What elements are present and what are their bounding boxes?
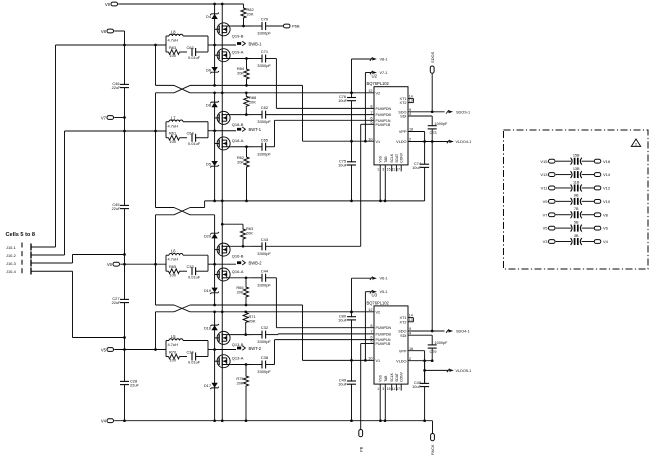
svg-text:V5: V5: [543, 226, 549, 231]
svg-text:1000pF: 1000pF: [435, 122, 449, 126]
wire V8 to filter bus: [114, 31, 126, 46]
capacitor C32 3300pF block4 upper: [252, 325, 272, 344]
svg-text:15B: 15B: [573, 154, 580, 158]
wire C44 to U3 pin 8: [266, 278, 374, 328]
wire link to V14: [582, 174, 595, 176]
node SDO4-1 net arrow: [446, 329, 470, 333]
svg-text:C64: C64: [187, 131, 195, 136]
capacitor C38 3300pF block4 lower: [252, 355, 272, 374]
transistor Q16-A lower balance FET: [215, 268, 244, 281]
svg-text:VLDO5-1: VLDO5-1: [456, 369, 472, 373]
wire V6 net to L6 box: [120, 263, 166, 266]
capacitor C63 0.01uF in block 1 box: [187, 45, 209, 60]
svg-text:R65: R65: [169, 264, 176, 269]
svg-text:12: 12: [368, 89, 372, 93]
transistor Q18-A lower balance FET: [215, 137, 244, 150]
wire V15 to link 15B: [556, 160, 571, 162]
node U3 pin 4 SDI: [400, 331, 432, 345]
svg-text:V7: V7: [543, 212, 549, 217]
pin PACK connector: [430, 434, 435, 456]
svg-text:9B: 9B: [574, 194, 579, 198]
wire drain rail block 2: [221, 93, 223, 201]
capacitor C46 22uF cell8 filter: [112, 81, 129, 90]
pin J10-4: [6, 268, 73, 275]
node U3 pin 10 V1: [368, 357, 380, 363]
wire V7 to link 7B: [556, 214, 571, 216]
svg-text:3300pF: 3300pF: [257, 251, 271, 256]
wire link to V4: [582, 240, 595, 242]
svg-text:P6B: P6B: [292, 24, 300, 29]
svg-text:10uF: 10uF: [338, 98, 347, 103]
node U2 pin 7 PUMPDB: [370, 111, 391, 117]
resistor R75 20K gate bottom block4: [236, 365, 248, 421]
svg-text:20K: 20K: [237, 290, 244, 295]
node U3 pin 9 SDO: [398, 327, 444, 333]
wire cell tap chain segment A: [155, 45, 157, 85]
svg-text:J10-2: J10-2: [6, 253, 16, 258]
svg-text:10uF: 10uF: [412, 384, 421, 389]
capacitor C62 3300pF block2 upper: [252, 105, 272, 124]
wire gate rail block 4: [214, 312, 216, 421]
wire J10-2 to V7 net: [64, 131, 66, 255]
svg-text:D4: D4: [206, 14, 212, 19]
svg-text:V14: V14: [603, 172, 611, 177]
resistor R65 100 in block 3 box: [166, 264, 187, 277]
svg-text:3300pF: 3300pF: [257, 63, 271, 68]
node BWT-1 balance drive flag: [215, 127, 262, 132]
svg-text:20K: 20K: [247, 12, 254, 17]
svg-text:BWB-1: BWB-1: [249, 41, 263, 46]
svg-text:20K: 20K: [249, 100, 256, 105]
svg-text:D5: D5: [206, 161, 211, 166]
wire XT1 XT2 bridge U2: [412, 98, 414, 102]
wire C38 to U3 pin 6: [266, 340, 374, 365]
node V5-1 net arrow: [365, 290, 387, 360]
wire J10-1 to V8 net: [55, 45, 57, 247]
wire J10-3 to V6 net: [73, 253, 126, 263]
capacitor C43 3300pF block3 upper: [252, 237, 272, 256]
svg-text:20K: 20K: [237, 71, 244, 76]
capacitor C73 1000pF U2: [428, 122, 448, 142]
svg-text:4.7uH: 4.7uH: [168, 257, 179, 262]
link 5B cell jumper: [571, 221, 582, 232]
capacitor C44 3300pF block3 lower: [252, 268, 272, 287]
svg-text:V1: V1: [376, 140, 381, 144]
wire Q16-A source line: [230, 276, 252, 279]
svg-text:J10-3: J10-3: [6, 261, 16, 266]
svg-text:BWT-2: BWT-2: [249, 346, 262, 351]
transistor Q16-B upper balance FET: [215, 243, 244, 259]
resistor R63 100 in block 1 box: [166, 45, 187, 58]
wire V8 net to L8 box: [56, 44, 167, 47]
svg-text:2: 2: [635, 143, 637, 147]
node V7-1 net arrow: [365, 71, 387, 141]
svg-text:C33: C33: [187, 264, 194, 269]
svg-text:Q19-A: Q19-A: [232, 50, 244, 55]
svg-text:PUMP1B: PUMP1B: [376, 342, 391, 346]
zener diode D16 block 4 upper clamp: [204, 324, 219, 330]
wire X1 lower to U2 V2 line: [190, 91, 374, 94]
transistor Q19-B upper balance FET: [215, 23, 244, 39]
svg-text:Q13-A: Q13-A: [232, 356, 244, 361]
pin J10-1: [6, 244, 56, 251]
svg-text:R61: R61: [169, 131, 176, 136]
wire C62 to U2 pin 7: [266, 114, 374, 116]
wire gate rail block 3: [214, 215, 216, 305]
svg-text:13: 13: [409, 99, 413, 103]
svg-text:V7-1: V7-1: [380, 71, 388, 75]
node V12 jumper pin right: [594, 186, 611, 191]
node U3 pin 5 PUMP1B: [370, 340, 391, 346]
svg-text:SCLK: SCLK: [390, 372, 394, 382]
wire L6 box output to gate rail node: [208, 263, 216, 266]
link 9B cell jumper: [571, 194, 582, 205]
node V6-1 net arrow: [350, 277, 387, 314]
svg-text:10uF: 10uF: [338, 317, 347, 322]
wire V9 to link 9B: [556, 200, 571, 202]
wire X2 lower to block3 gate rail: [190, 214, 215, 216]
svg-text:SDAT: SDAT: [395, 373, 399, 382]
wire X1 upper to U2 V1 drop: [190, 84, 303, 141]
pin V6 cell 6 tap: [107, 262, 120, 267]
pin PB test point: [358, 430, 363, 453]
svg-text:11B: 11B: [573, 180, 580, 184]
capacitor C28 22uF cell5 filter: [120, 379, 139, 388]
wire link to V8: [582, 214, 595, 216]
wire gate rail block 2: [214, 93, 216, 201]
svg-text:PUMPDB: PUMPDB: [376, 332, 392, 336]
svg-text:R63: R63: [169, 45, 176, 50]
wire V7 to filter bus: [114, 116, 126, 119]
inductor L7 block 2 input filter box: [166, 115, 208, 138]
resistor R63 20K gate top block3: [221, 223, 253, 246]
node U2 pin 14 XT1: [400, 95, 414, 102]
svg-text:22uF: 22uF: [112, 206, 121, 211]
wire X3 upper to U3 V1 drop: [190, 304, 303, 361]
svg-text:20K: 20K: [246, 231, 253, 236]
zener diode D17 block 4 lower clamp: [204, 383, 219, 389]
wire Q19-B source line: [230, 25, 252, 28]
wire VLDO5-1 drop: [423, 361, 448, 372]
wire link to V6: [582, 227, 595, 229]
node SDOS-1 net arrow: [446, 110, 470, 114]
svg-text:V9: V9: [105, 2, 111, 7]
svg-text:V2: V2: [376, 311, 381, 315]
svg-text:V9: V9: [543, 199, 549, 204]
svg-text:0.01uF: 0.01uF: [188, 274, 201, 279]
wire L5 box output to gate rail node: [208, 348, 216, 351]
capacitor C74 10uF U2 VLDO bypass: [412, 142, 429, 170]
node V7 jumper pin left: [543, 212, 555, 217]
svg-text:PUMPDB: PUMPDB: [376, 113, 392, 117]
node VLDO5-1 net arrow: [447, 369, 471, 373]
svg-text:V4: V4: [101, 419, 107, 424]
wire C70 to P6B: [266, 25, 284, 27]
svg-text:1: 1: [377, 387, 379, 391]
wire V13 to link 13B: [556, 174, 571, 176]
node U3 pin 13 XT2: [400, 318, 414, 325]
svg-text:7B: 7B: [574, 207, 579, 211]
node BWT-2 balance drive flag: [215, 346, 262, 351]
svg-text:10uF: 10uF: [412, 165, 421, 170]
svg-text:3300pF: 3300pF: [257, 369, 271, 374]
svg-text:VLDO: VLDO: [396, 359, 406, 363]
capacitor C80 10uF U3 V2 bypass: [338, 312, 356, 362]
svg-text:V8: V8: [603, 212, 609, 217]
capacitor C49 10uF U3 V1 bypass: [338, 360, 356, 420]
svg-text:XT2: XT2: [400, 101, 407, 105]
node U3 pin 2 VLDO: [396, 357, 411, 363]
svg-text:J10-4: J10-4: [6, 269, 17, 274]
wire V5 to link 5B: [556, 227, 571, 229]
capacitor C45 22uF cell7 filter: [112, 202, 129, 211]
transistor Q13-A lower balance FET: [215, 355, 244, 368]
node V13 jumper pin left: [540, 172, 555, 177]
svg-text:SCLK: SCLK: [390, 153, 394, 163]
svg-text:3300pF: 3300pF: [257, 282, 271, 287]
svg-text:SDAT: SDAT: [395, 154, 399, 163]
svg-text:4.7uH: 4.7uH: [168, 38, 179, 43]
wire U3 V1 line: [303, 359, 375, 362]
zener diode D4 block 1 upper clamp: [206, 13, 219, 19]
transistor Q13-B upper balance FET: [215, 331, 244, 347]
svg-text:BWT-1: BWT-1: [249, 127, 262, 132]
svg-text:VSS: VSS: [379, 374, 383, 382]
svg-text:5B: 5B: [574, 221, 579, 225]
svg-text:20K: 20K: [237, 381, 244, 386]
node V3 jumper pin left: [543, 239, 555, 244]
wire link to V12: [582, 187, 595, 189]
svg-text:0.01uF: 0.01uF: [188, 141, 201, 146]
node U3 bottom pins: [377, 371, 404, 421]
wire Q18-A source line: [230, 145, 252, 148]
svg-text:V3: V3: [543, 239, 549, 244]
wire X3 lower to U3 V2 line: [190, 310, 374, 313]
svg-text:TAB: TAB: [384, 156, 388, 163]
wire C71 to U2 pin 8: [266, 59, 374, 109]
svg-text:TAB: TAB: [384, 375, 388, 382]
node V8 jumper pin right: [594, 212, 608, 217]
node BWB-2 balance drive flag: [215, 260, 263, 265]
svg-text:BQ76PL102: BQ76PL102: [367, 81, 390, 86]
zener diode D5 block 2 lower clamp: [206, 161, 219, 167]
connector J10 Cells 5 to 8 header: [6, 232, 36, 238]
wire J10-4 to V5 net: [73, 271, 126, 339]
wire U2 V1 line: [303, 140, 375, 143]
svg-text:VLDO: VLDO: [396, 140, 406, 144]
link 7B cell jumper: [571, 207, 582, 218]
svg-text:Q16-A: Q16-A: [232, 269, 244, 274]
svg-text:4.7uH: 4.7uH: [168, 123, 179, 128]
svg-text:D6: D6: [206, 67, 211, 72]
node BWB-1 balance drive flag: [215, 41, 263, 46]
node U2 pin 13 XT2: [400, 99, 414, 106]
svg-text:13: 13: [409, 318, 413, 322]
svg-text:100: 100: [170, 358, 177, 363]
node V11 jumper pin left: [541, 186, 555, 191]
svg-text:CONV: CONV: [400, 152, 404, 163]
svg-text:PACK: PACK: [430, 444, 435, 455]
wire C48 bottom to pack bus: [424, 387, 426, 421]
svg-text:Q16-B: Q16-B: [232, 254, 244, 259]
op-amp U3 bq76PL102 monitor IC body: [367, 293, 409, 384]
wire V7 net to L7 box: [65, 130, 167, 133]
wire Q16-B source line: [230, 245, 252, 248]
node V8-1 net arrow: [350, 57, 387, 94]
pin J10-2: [6, 252, 65, 259]
wire C74 bottom to VSS bus: [424, 167, 426, 201]
svg-text:R70: R70: [169, 349, 177, 354]
node V15 jumper pin left: [540, 159, 555, 164]
capacitor C76 10uF U2 V2 bypass: [338, 93, 356, 143]
node U3 pin 6 PUMP1N: [370, 336, 391, 342]
svg-text:3: 3: [382, 168, 384, 172]
svg-text:C63: C63: [187, 45, 194, 50]
transistor Q19-A lower balance FET: [215, 49, 244, 62]
pin V9 cell 9 tap: [105, 2, 118, 7]
svg-text:SDI: SDI: [400, 115, 406, 119]
svg-text:16: 16: [409, 128, 413, 132]
svg-text:1000pF: 1000pF: [435, 341, 449, 345]
wire SDOS chain to U3 SDO: [431, 142, 433, 332]
svg-text:C71: C71: [261, 49, 269, 54]
wire Q19-A source line: [230, 57, 252, 60]
node U2 bottom pins: [377, 152, 404, 202]
zener diode D20 block 3 upper clamp: [204, 232, 219, 238]
wire cell tap chain segment B: [155, 93, 157, 208]
wire crossover X1: [156, 85, 191, 92]
resistor R70 100 in block 4 box: [166, 349, 187, 362]
svg-text:D19: D19: [204, 288, 211, 293]
wire U2 VSS bus: [205, 200, 425, 203]
wire U2 VLDO line to VLDO4-1: [408, 140, 449, 143]
wire L8 box output to gate rail node: [208, 44, 216, 47]
capacitor C33 0.01uF in block 3 box: [187, 264, 209, 279]
svg-text:V2: V2: [376, 91, 381, 95]
svg-text:C79: C79: [430, 350, 437, 354]
svg-text:22uF: 22uF: [130, 383, 139, 388]
svg-text:C34: C34: [187, 349, 195, 354]
pin V8 cell 8 tap: [101, 29, 114, 34]
link 11B cell jumper: [571, 180, 582, 191]
svg-text:8: 8: [370, 105, 372, 109]
svg-text:U3: U3: [372, 293, 378, 298]
inductor L5 block 4 input filter box: [166, 334, 208, 357]
svg-text:V1: V1: [376, 359, 381, 363]
svg-text:V6-1: V6-1: [380, 277, 388, 281]
node U2 pin 10 V1: [368, 137, 380, 143]
resistor R84 20K gate bottom block1: [237, 59, 249, 87]
pin V4 cell 4 tap: [101, 419, 114, 424]
wire V3 to link 3B: [556, 240, 571, 242]
zener diode D6 block 1 lower clamp: [206, 67, 219, 73]
wire U3 pin5 to PB: [361, 344, 374, 430]
svg-text:3B: 3B: [574, 234, 579, 238]
wire cell tap chain segment D: [155, 312, 157, 350]
svg-text:12: 12: [368, 308, 372, 312]
svg-text:D8: D8: [206, 102, 211, 107]
svg-text:C44: C44: [261, 268, 269, 273]
inductor L8 block 1 input filter box: [166, 30, 208, 53]
wire V5 net to L5 box: [114, 348, 166, 351]
wire C43 to U2 pin 5: [266, 124, 374, 246]
wire drain rail block 1: [221, 4, 223, 93]
node U2 pin 16 VPP: [399, 128, 425, 142]
wire X2 upper to VSS bus U2: [190, 201, 205, 208]
svg-text:XT2: XT2: [400, 320, 407, 324]
resistor R88 20K gate top block2: [244, 93, 257, 115]
svg-text:16: 16: [409, 347, 413, 351]
node U2 pin 5 PUMP1B: [370, 121, 391, 127]
node U2 pin 9 SDO: [398, 108, 444, 114]
svg-text:4.7uH: 4.7uH: [168, 342, 179, 347]
link 13B cell jumper: [571, 167, 582, 178]
svg-text:C38: C38: [261, 355, 269, 360]
wire C32 to U3 pin 7: [266, 333, 374, 336]
svg-text:10uF: 10uF: [338, 382, 347, 387]
wire V9 top rail: [118, 3, 243, 6]
node U2 pin 2 VLDO: [396, 138, 411, 144]
pin V5 cell 5 tap: [101, 348, 114, 353]
svg-text:V11: V11: [541, 186, 549, 191]
wire Q13-A source line: [230, 363, 252, 366]
wire link to V10: [582, 200, 595, 202]
wire C48 top from VLDO5 node: [424, 370, 426, 383]
svg-text:22uF: 22uF: [112, 85, 121, 90]
resistor R82 20K gate top block1: [241, 4, 254, 26]
dashed option box border: [504, 130, 649, 269]
svg-text:7: 7: [370, 330, 372, 334]
pin P6B: [284, 24, 300, 29]
svg-text:7: 7: [370, 111, 372, 115]
capacitor C48 10uF U3 VLDO bypass: [412, 361, 429, 389]
node U3 pin 12 V2: [368, 308, 380, 314]
svg-text:3300pF: 3300pF: [257, 151, 271, 156]
wire Q13-B source line: [230, 333, 252, 336]
pin J10-3: [6, 260, 73, 267]
node V9 jumper pin left: [543, 199, 555, 204]
wire cell tap chain segment C: [155, 215, 157, 305]
svg-text:V12: V12: [603, 186, 611, 191]
capacitor C79 1000pF U3: [428, 341, 448, 361]
wire XT1 XT2 bridge U3: [412, 318, 414, 322]
node U2 pin 4 SDI: [400, 112, 432, 126]
svg-text:PUMPDN: PUMPDN: [376, 326, 392, 330]
svg-text:V7: V7: [101, 116, 107, 121]
svg-text:L6: L6: [171, 249, 176, 254]
svg-text:17: 17: [396, 387, 400, 391]
svg-text:C32: C32: [261, 325, 269, 330]
capacitor C34 0.01uF in block 4 box: [187, 349, 209, 364]
svg-text:V15: V15: [540, 159, 548, 164]
capacitor C75 10uF U2 V1 bypass: [338, 141, 356, 201]
svg-text:L5: L5: [171, 334, 176, 339]
node U3 pin 14 XT1: [400, 314, 414, 321]
svg-text:SDOS: SDOS: [430, 51, 435, 63]
wire C65 to U2 pin 6: [266, 120, 374, 146]
node V14 jumper pin right: [594, 172, 611, 177]
svg-text:3: 3: [382, 387, 384, 391]
svg-text:V16: V16: [603, 159, 611, 164]
svg-text:3300pF: 3300pF: [257, 339, 271, 344]
svg-text:VSS: VSS: [379, 155, 383, 163]
svg-text:8: 8: [370, 324, 372, 328]
svg-text:L8: L8: [171, 30, 176, 35]
svg-text:3300pF: 3300pF: [257, 31, 271, 36]
svg-text:100: 100: [170, 272, 177, 277]
svg-text:Q19-B: Q19-B: [232, 33, 244, 38]
capacitor C64 0.01uF in block 2 box: [187, 131, 209, 146]
